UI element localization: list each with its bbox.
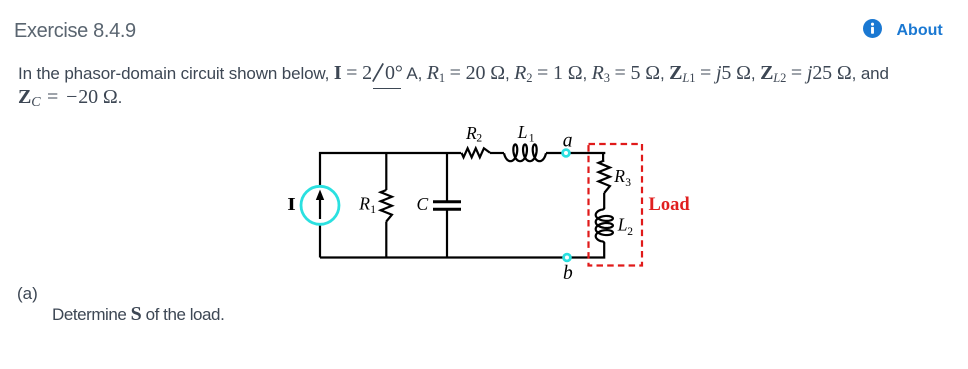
svg-text:R: R (358, 193, 370, 213)
svg-text:C: C (417, 194, 429, 214)
svg-text:a: a (563, 130, 573, 151)
svg-text:L: L (617, 215, 628, 235)
svg-text:L: L (517, 122, 528, 142)
svg-text:Load: Load (649, 195, 691, 215)
svg-text:2: 2 (476, 133, 482, 145)
svg-text:1: 1 (370, 204, 376, 216)
svg-text:1: 1 (529, 133, 535, 145)
svg-text:2: 2 (627, 226, 633, 238)
svg-text:R: R (465, 123, 477, 143)
svg-text:b: b (563, 263, 573, 284)
svg-text:I: I (287, 195, 296, 214)
svg-text:3: 3 (625, 177, 631, 189)
svg-text:R: R (613, 166, 625, 186)
